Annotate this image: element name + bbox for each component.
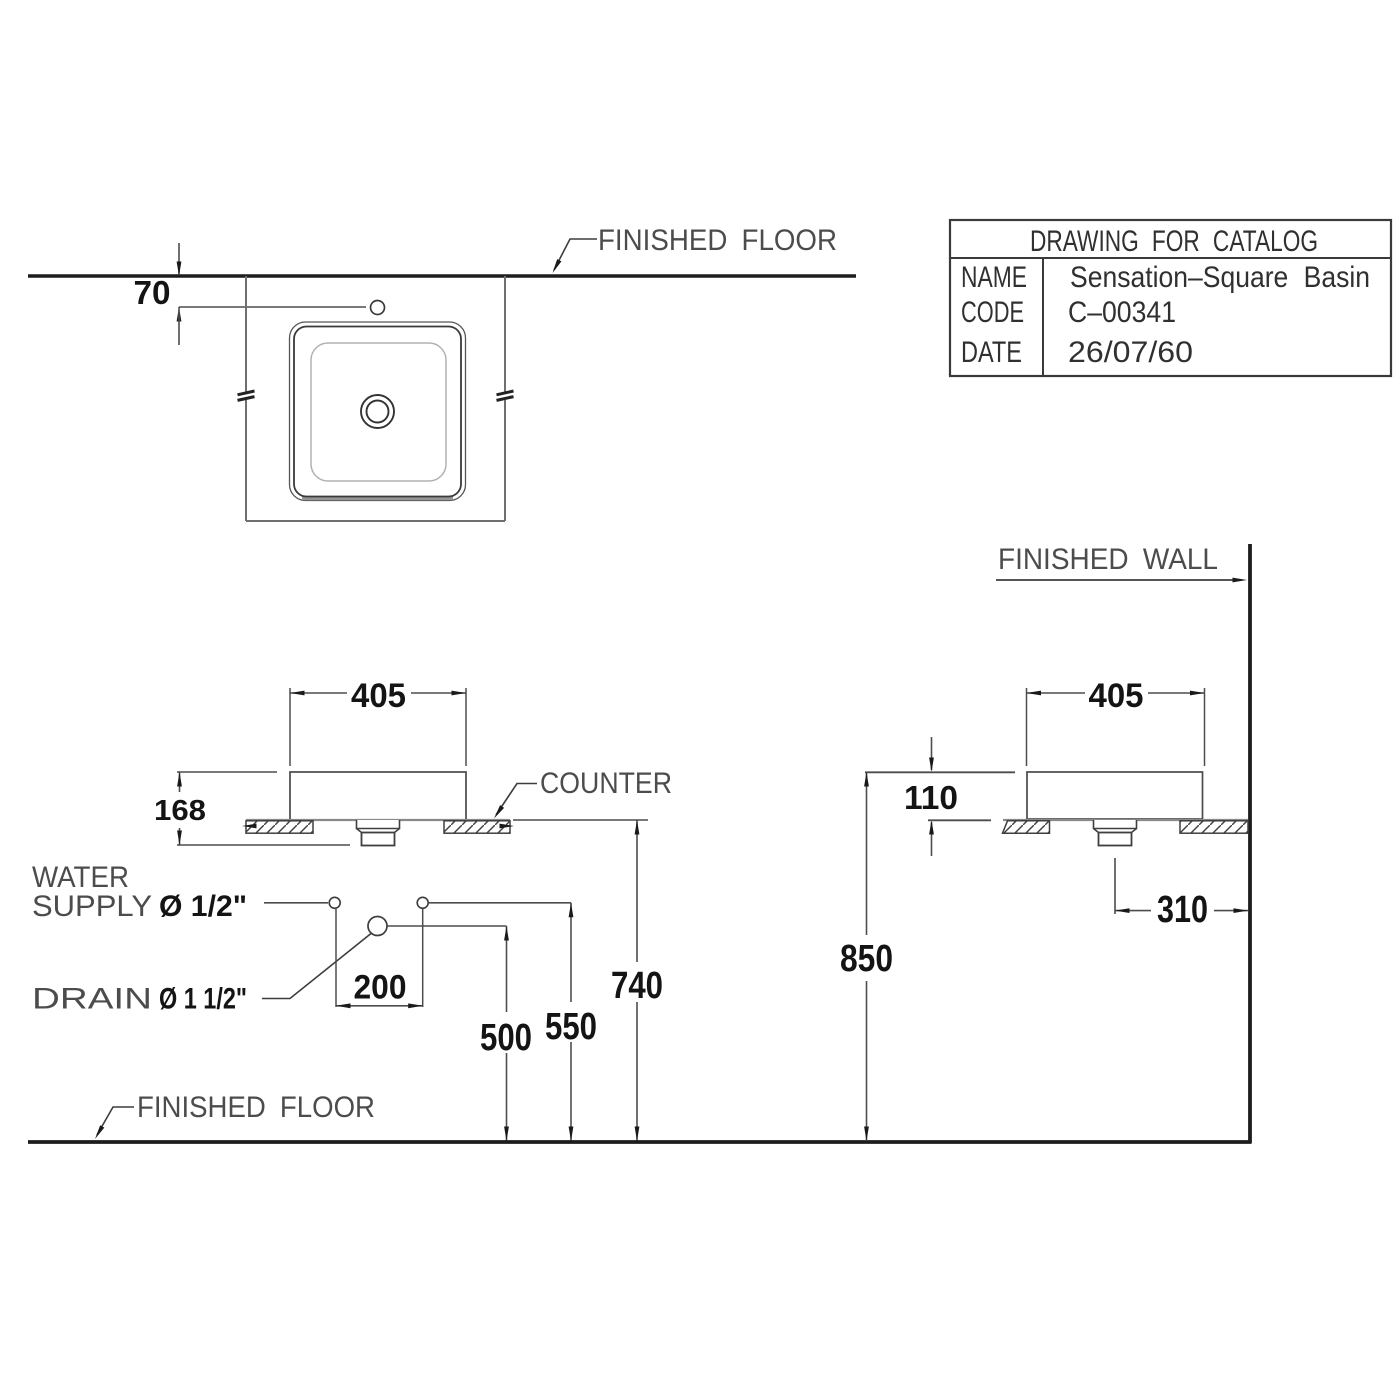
counter hatch right (front) <box>444 821 510 833</box>
dim 168: dimension line and arrows <box>179 772 181 792</box>
counter square (plan) right edge with break <box>504 276 506 521</box>
basin rim shadow (plan bottom) <box>302 496 453 501</box>
water supply hole left <box>329 897 340 908</box>
svg-text:Ø 1/2": Ø 1/2" <box>159 890 247 923</box>
drain tailpiece (front) <box>362 833 395 846</box>
basin body (side) <box>1027 772 1203 819</box>
dim 200: extension lines <box>335 909 337 1007</box>
faucet hole (plan) <box>371 301 385 315</box>
title block header divider <box>950 257 1391 259</box>
dim 405 front: dimension line and arrows <box>290 692 347 694</box>
svg-text:FINISHED FLOOR: FINISHED FLOOR <box>137 1091 375 1124</box>
dim 405 side: extension lines <box>1026 688 1028 766</box>
svg-text:COUNTER: COUNTER <box>540 767 672 800</box>
basin rim outer (plan) <box>290 322 466 501</box>
leader FINISHED WALL <box>996 579 1235 581</box>
line from drain (side) down to 310 dim <box>1114 858 1116 914</box>
drain flare (side) <box>1094 829 1137 833</box>
counter line (side) <box>1003 819 1248 821</box>
svg-text:168: 168 <box>154 795 206 827</box>
leader COUNTER <box>496 784 537 816</box>
basin body (front) <box>290 772 466 820</box>
svg-text:850: 850 <box>840 938 893 980</box>
dim 740 top extension line <box>513 819 648 821</box>
counter hatch right (side) <box>1180 821 1248 833</box>
counter square (plan) bottom edge <box>246 520 505 522</box>
finished floor line (top) <box>28 274 856 278</box>
finished wall line <box>1248 544 1252 1144</box>
dim 110: bottom arrow <box>931 822 933 856</box>
drain collar (front) <box>357 820 400 829</box>
break mark right edge <box>497 391 514 400</box>
dim 110: top arrow <box>931 737 933 770</box>
svg-text:405: 405 <box>351 677 406 715</box>
dim 850 vertical line and arrows <box>866 772 868 935</box>
title block outer frame <box>950 220 1391 376</box>
svg-text:500: 500 <box>480 1017 532 1059</box>
break mark left edge <box>238 391 255 400</box>
drain tailpiece (side) <box>1099 833 1132 846</box>
leader FINISHED FLOOR (top) <box>554 239 597 270</box>
drain inner circle (plan) <box>367 401 389 423</box>
dim 310: dimension line and arrows <box>1115 910 1151 912</box>
dim 550 vertical line and arrows <box>570 903 572 1002</box>
title block vertical divider <box>1042 258 1044 376</box>
drain flare (front) <box>357 829 400 833</box>
line from right supply to 550 dim <box>429 902 571 904</box>
drain hole circle (front) <box>368 917 387 936</box>
svg-text:NAME: NAME <box>961 261 1027 294</box>
dim 405 front: extension lines <box>289 688 291 766</box>
dim 500 vertical line and arrows <box>506 926 508 1012</box>
svg-text:DRAIN: DRAIN <box>32 983 152 1016</box>
finished floor line (bottom) <box>28 1140 1251 1144</box>
dimension 70 <box>178 243 180 274</box>
dim 740 vertical line and arrows <box>636 820 638 962</box>
svg-text:405: 405 <box>1089 677 1144 715</box>
svg-text:26/07/60: 26/07/60 <box>1068 336 1193 369</box>
svg-text:C–00341: C–00341 <box>1068 296 1176 329</box>
dim 110 / 850 top extension line <box>865 771 1015 773</box>
drain outer circle (plan) <box>361 395 394 428</box>
water supply hole right <box>417 897 428 908</box>
counter line (front) <box>246 819 510 821</box>
svg-text:110: 110 <box>904 779 958 816</box>
svg-text:550: 550 <box>545 1006 597 1048</box>
water supply leader line <box>264 902 328 904</box>
counter square (plan) left edge with break <box>245 276 247 521</box>
svg-text:FINISHED FLOOR: FINISHED FLOOR <box>598 224 837 257</box>
svg-text:DATE: DATE <box>961 336 1022 369</box>
svg-text:70: 70 <box>134 274 171 311</box>
dim 110 bottom extension line <box>928 819 991 821</box>
dim 200: dimension line and arrows <box>336 1005 423 1007</box>
svg-text:CODE: CODE <box>961 296 1024 329</box>
basin bowl (plan, light) <box>311 343 446 481</box>
svg-text:Ø 1 1/2": Ø 1 1/2" <box>159 983 247 1016</box>
svg-text:310: 310 <box>1157 889 1208 931</box>
svg-text:200: 200 <box>354 969 407 1007</box>
counter cut arrow left (front) <box>242 824 257 829</box>
counter hatch left (side) <box>1003 821 1050 833</box>
dim 168: extension lines <box>177 771 277 773</box>
svg-text:DRAWING FOR CATALOG: DRAWING FOR CATALOG <box>1030 225 1318 258</box>
svg-text:Sensation–Square Basin: Sensation–Square Basin <box>1070 261 1370 294</box>
svg-text:SUPPLY: SUPPLY <box>32 890 152 923</box>
counter hatch left (front) <box>246 821 313 833</box>
svg-text:FINISHED WALL: FINISHED WALL <box>998 543 1218 576</box>
counter cut arrow right (front) <box>500 824 515 829</box>
drain collar (side) <box>1094 820 1137 829</box>
line from drain hole to 500 dim <box>388 925 507 927</box>
leader FINISHED FLOOR (bottom) <box>97 1107 134 1135</box>
basin rim inner (plan) <box>294 327 461 497</box>
svg-text:740: 740 <box>611 965 663 1007</box>
dim 405 side: dimension line and arrows <box>1027 692 1086 694</box>
leader DRAIN <box>262 934 371 999</box>
